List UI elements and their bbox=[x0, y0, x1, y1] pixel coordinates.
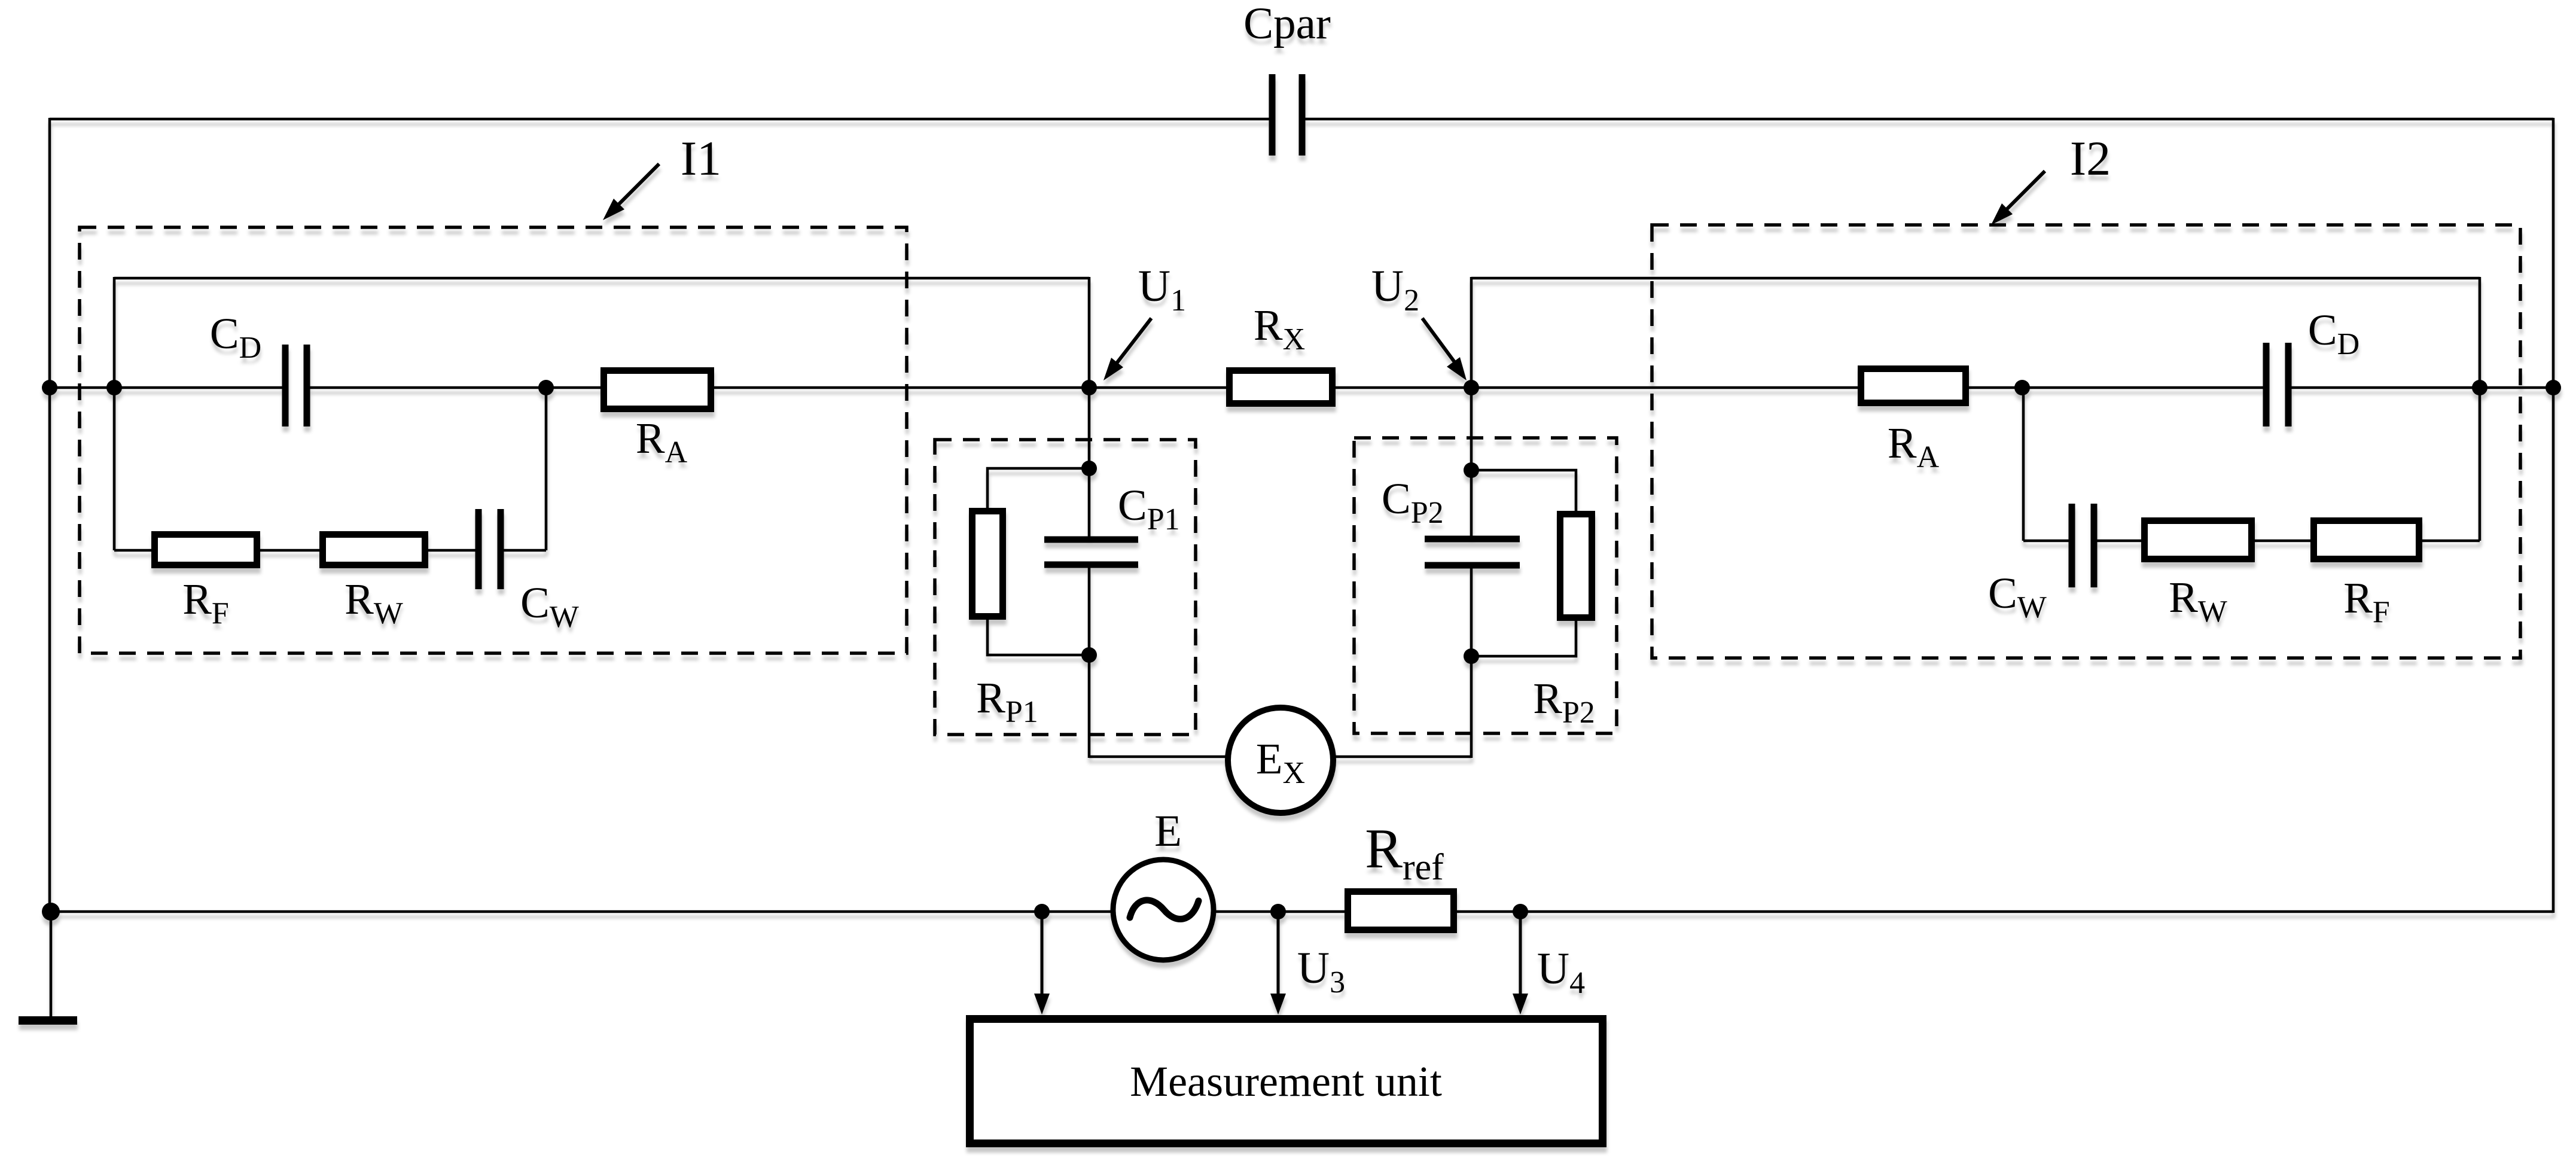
svg-text:RF: RF bbox=[2343, 574, 2390, 629]
node U1 dot bbox=[1081, 380, 1097, 395]
svg-text:RP1: RP1 bbox=[976, 674, 1038, 729]
measurement unit box bbox=[970, 1019, 1603, 1144]
capacitor CD left bbox=[285, 345, 307, 426]
wire RP2 branch bbox=[1471, 470, 1576, 656]
source EX bbox=[1228, 708, 1333, 813]
resistor Rref bbox=[1348, 892, 1454, 930]
arrow to I2 box bbox=[1991, 171, 2045, 225]
svg-text:U2: U2 bbox=[1371, 261, 1419, 318]
svg-text:Rref: Rref bbox=[1365, 818, 1444, 888]
capacitor CW left bbox=[478, 509, 501, 589]
svg-text:CP1: CP1 bbox=[1118, 481, 1180, 537]
wire RP1 branch bbox=[987, 468, 1089, 655]
node dot CP1 bottom bbox=[1081, 647, 1097, 663]
svg-text:E: E bbox=[1154, 806, 1182, 856]
wire left bottom branch bbox=[114, 549, 546, 552]
svg-text:Measurement unit: Measurement unit bbox=[1130, 1058, 1442, 1105]
wire top left bbox=[50, 118, 1269, 121]
wire left loop top bbox=[114, 277, 1089, 280]
wire U1 stub bbox=[1088, 277, 1091, 388]
arrow to U2 node bbox=[1422, 318, 1467, 380]
dashed box P2 bbox=[1354, 438, 1617, 733]
node dot E left bbox=[1034, 904, 1050, 919]
arrow U4 to measurement unit bbox=[1513, 916, 1528, 1014]
arrow E left to measurement unit bbox=[1034, 916, 1050, 1014]
node dot right outer bbox=[2545, 380, 2561, 395]
sine symbol in E bbox=[1130, 900, 1199, 919]
svg-text:RP2: RP2 bbox=[1533, 674, 1595, 730]
wire main line bbox=[50, 386, 2553, 389]
wire U2 stub bbox=[1470, 277, 1473, 388]
svg-text:I1: I1 bbox=[681, 131, 721, 185]
wire EX right lead bbox=[1333, 755, 1471, 758]
wire left loop vertical bbox=[113, 277, 116, 550]
svg-text:U1: U1 bbox=[1138, 261, 1186, 318]
capacitor CD right bbox=[2266, 343, 2288, 426]
wire U1 down bbox=[1088, 388, 1091, 758]
wire EX left lead bbox=[1089, 755, 1228, 758]
node dot main-left outer bbox=[42, 380, 57, 395]
wire right bottom branch bbox=[2023, 540, 2480, 543]
resistor RF left bbox=[155, 535, 257, 565]
ground bbox=[19, 912, 77, 1020]
svg-text:CD: CD bbox=[210, 309, 261, 365]
svg-text:U3: U3 bbox=[1297, 943, 1345, 1000]
arrow to I1 box bbox=[603, 164, 659, 220]
svg-text:U4: U4 bbox=[1537, 944, 1585, 1000]
node dot CW branch bbox=[538, 380, 554, 395]
svg-text:CD: CD bbox=[2308, 306, 2359, 361]
svg-text:RA: RA bbox=[1888, 419, 1940, 474]
arrow to U1 node bbox=[1103, 318, 1151, 380]
resistor RX bbox=[1230, 371, 1333, 404]
node dot CP1 top bbox=[1081, 461, 1097, 476]
resistor RW right bbox=[2145, 521, 2252, 559]
node dot CP2 bottom bbox=[1464, 648, 1479, 664]
svg-text:I2: I2 bbox=[2070, 131, 2111, 185]
capacitor Cpar bbox=[1272, 74, 1302, 156]
node U2 dot bbox=[1464, 380, 1479, 395]
svg-text:Cpar: Cpar bbox=[1243, 0, 1331, 48]
node dot U4 bbox=[1513, 904, 1528, 919]
svg-text:RW: RW bbox=[345, 575, 403, 630]
wire U2 down bbox=[1470, 388, 1473, 758]
node dot loop-left bbox=[106, 380, 122, 395]
capacitor CP1 bbox=[1044, 540, 1138, 565]
wire bottom bbox=[50, 910, 2553, 913]
svg-text:RF: RF bbox=[182, 575, 229, 630]
node dot bottom left junction bbox=[42, 903, 60, 921]
resistor RA left bbox=[604, 371, 711, 409]
dashed box I1 bbox=[80, 227, 907, 653]
wire right loop vertical bbox=[2479, 277, 2482, 541]
resistor RP1 bbox=[973, 511, 1003, 617]
resistor RP2 bbox=[1560, 514, 1592, 618]
wire right branch down bbox=[2022, 388, 2025, 541]
source E bbox=[1113, 860, 1214, 960]
capacitor CW right bbox=[2072, 504, 2094, 587]
svg-text:RA: RA bbox=[636, 414, 688, 470]
wire left vertical bbox=[48, 118, 51, 912]
svg-text:CW: CW bbox=[520, 578, 579, 634]
resistor RA right bbox=[1861, 369, 1966, 403]
node dot CP2 top bbox=[1464, 462, 1479, 478]
resistor RF right bbox=[2314, 521, 2419, 559]
node dot U3 bbox=[1270, 904, 1286, 919]
svg-text:CW: CW bbox=[1988, 569, 2047, 624]
wire CW branch up bbox=[545, 388, 548, 550]
node dot right loop bbox=[2472, 380, 2487, 395]
svg-text:CP2: CP2 bbox=[1382, 474, 1444, 530]
dashed box I2 bbox=[1652, 225, 2520, 658]
capacitor CP2 bbox=[1425, 539, 1520, 565]
arrow U3 to measurement unit bbox=[1270, 916, 1286, 1014]
svg-text:RW: RW bbox=[2169, 573, 2227, 629]
resistor RW left bbox=[323, 535, 425, 565]
wire right loop top bbox=[1471, 277, 2480, 280]
wire right vertical bbox=[2552, 118, 2555, 913]
dashed box P1 bbox=[935, 440, 1196, 735]
svg-text:RX: RX bbox=[1254, 301, 1305, 357]
wire top right bbox=[1305, 118, 2553, 121]
node dot right branch bbox=[2014, 380, 2030, 395]
